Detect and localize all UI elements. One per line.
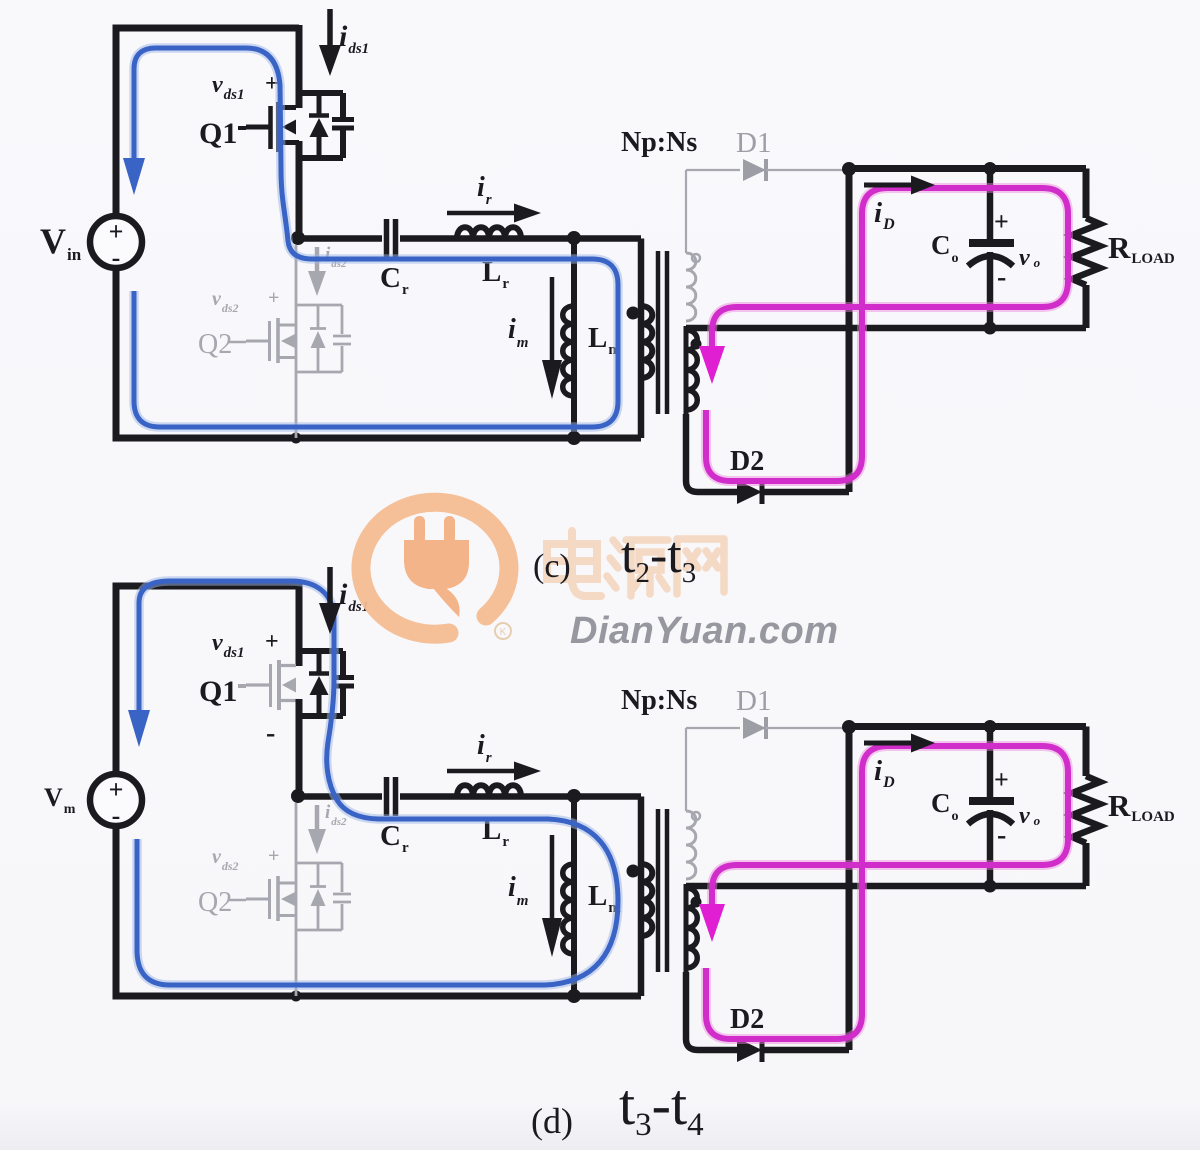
capacitor Cr [circuit (d)] xyxy=(387,777,396,816)
svg-text:+: + xyxy=(109,217,124,246)
svg-text:D1: D1 xyxy=(736,127,771,159)
node A (half-bridge midpoint) [circuit (d)] xyxy=(291,789,305,803)
svg-text:Np:Ns: Np:Ns xyxy=(621,685,697,716)
wire Q2 branch (gray) [circuit (c)] xyxy=(295,245,298,438)
bracket Q1 parallel branch frame [circuit (d)] xyxy=(296,651,343,716)
watermark logo plug xyxy=(404,516,469,617)
svg-text:Q1: Q1 xyxy=(199,675,237,708)
wire D2 to output riser [circuit (d)] xyxy=(762,1047,849,1054)
svg-text:Np:Ns: Np:Ns xyxy=(621,127,697,158)
capacitor Co [circuit (c)] xyxy=(968,169,1014,329)
wire transformer primary branch [circuit (c)] xyxy=(638,239,645,439)
svg-text:vds2: vds2 xyxy=(212,288,239,315)
node Lm bottom [circuit (d)] xyxy=(567,989,581,1003)
transistor Q1 MOSFET symbol [circuit (c)] xyxy=(246,102,299,152)
wire blue resonant-current loop (t2-t3) [circuit (c)] xyxy=(134,48,618,427)
capacitor Q1 output capacitance [circuit (d)] xyxy=(332,678,354,687)
capacitor Q2 output capacitance (gray) [circuit (c)] xyxy=(333,336,351,344)
watermark logo swirl (orange e) xyxy=(361,502,509,634)
transistor Q2 MOSFET symbol (gray) [circuit (d)] xyxy=(246,876,296,921)
node Lm top [circuit (d)] xyxy=(567,789,581,803)
bracket Q1 parallel branch frame [circuit (c)] xyxy=(296,93,343,158)
watermark chinese character dian xyxy=(547,531,601,596)
arrow i_m [circuit (c)] xyxy=(542,277,562,399)
svg-text:Q2: Q2 xyxy=(198,329,232,360)
inductor Lm [circuit (d)] xyxy=(563,796,574,996)
resistor RLOAD [circuit (d)] xyxy=(1072,727,1100,887)
svg-text:+: + xyxy=(268,287,279,309)
source Vin [circuit (d)] xyxy=(90,774,142,830)
svg-text:+: + xyxy=(994,207,1009,236)
inductor Lr [circuit (c)] xyxy=(457,227,521,238)
node Co top [circuit (d)] xyxy=(984,720,997,733)
wire secondary lower to D2 row [circuit (c)] xyxy=(686,414,737,492)
svg-text:(d): (d) xyxy=(531,1101,573,1141)
svg-text:(c): (c) xyxy=(533,548,571,585)
svg-text:D1: D1 xyxy=(736,685,771,717)
svg-text:im: im xyxy=(508,314,528,351)
node Co bottom [circuit (c)] xyxy=(984,322,997,335)
diode Q2 body diode (gray) [circuit (d)] xyxy=(310,863,326,930)
svg-text:RLOAD: RLOAD xyxy=(1108,230,1175,267)
arrow i_D [circuit (d)] xyxy=(864,734,935,753)
node A (half-bridge midpoint) [circuit (c)] xyxy=(291,231,305,245)
node output top-left [circuit (c)] xyxy=(842,162,856,176)
svg-text:iD: iD xyxy=(874,197,895,233)
svg-text:Vm: Vm xyxy=(44,783,76,817)
node output top-left [circuit (d)] xyxy=(842,720,856,734)
svg-text:Co: Co xyxy=(931,788,959,824)
svg-text:-: - xyxy=(112,801,121,830)
watermark chinese character wang xyxy=(677,539,724,594)
diode Q1 body diode [circuit (c)] xyxy=(309,93,329,158)
wire node row to Cr / Lr / Lm [circuit (c)] xyxy=(298,235,641,242)
inductor Lr [circuit (d)] xyxy=(457,785,521,796)
arrow i_r [circuit (d)] xyxy=(447,762,541,781)
wire secondary lower to D2 row [circuit (d)] xyxy=(686,972,737,1050)
node Co bottom [circuit (d)] xyxy=(984,880,997,893)
node Q2 bottom [circuit (d)] xyxy=(291,991,302,1002)
svg-text:vo: vo xyxy=(1019,245,1041,271)
node primary polarity dot [circuit (d)] xyxy=(627,865,640,878)
core transformer [circuit (d)] xyxy=(658,809,667,972)
transistor Q1 MOSFET symbol [circuit (d)] xyxy=(246,660,299,710)
wire D2 to output riser [circuit (c)] xyxy=(762,489,849,496)
arrow i_ds2 (gray) [circuit (d)] xyxy=(308,805,326,854)
winding transformer secondary upper (inactive, gray) [circuit (d)] xyxy=(686,728,696,879)
svg-text:-: - xyxy=(997,820,1006,851)
svg-text:D2: D2 xyxy=(730,446,764,477)
wire output riser (D2 cathode to output +) [circuit (c)] xyxy=(846,169,853,492)
wire output top rail [circuit (c)] xyxy=(849,165,1086,172)
wire Q1 source lead down to node A [circuit (d)] xyxy=(296,699,303,796)
winding transformer primary [circuit (d)] xyxy=(641,864,652,936)
svg-text:ir: ir xyxy=(477,730,492,766)
wire node row to Cr / Lr / Lm [circuit (d)] xyxy=(298,793,641,800)
winding transformer secondary lower [circuit (d)] xyxy=(686,884,697,972)
capacitor Q1 output capacitance [circuit (c)] xyxy=(332,120,354,129)
svg-text:iD: iD xyxy=(874,755,895,791)
node primary polarity dot [circuit (c)] xyxy=(627,307,640,320)
svg-text:-: - xyxy=(112,243,121,272)
wire output return rail (center tap) [circuit (c)] xyxy=(686,325,1086,332)
svg-text:t3-t4: t3-t4 xyxy=(619,1072,704,1143)
node Lm bottom [circuit (c)] xyxy=(567,431,581,445)
svg-text:vds1: vds1 xyxy=(212,72,245,103)
svg-text:vds1: vds1 xyxy=(212,630,245,661)
winding transformer secondary upper (inactive, gray) [circuit (c)] xyxy=(686,170,696,321)
svg-text:Q2: Q2 xyxy=(198,887,232,918)
node secondary lower polarity dot [circuit (c)] xyxy=(691,339,702,350)
wire input-loop: top rail, left rail, bottom rail [circuit (d)] xyxy=(116,586,641,996)
svg-text:+: + xyxy=(268,845,279,867)
svg-text:Q1: Q1 xyxy=(199,117,237,150)
svg-text:Cr: Cr xyxy=(380,262,409,298)
svg-text:-: - xyxy=(997,262,1006,293)
arrow magenta loop head (down, into secondary) [circuit (c)] xyxy=(699,346,725,384)
svg-text:RLOAD: RLOAD xyxy=(1108,788,1175,825)
arrow i_r [circuit (c)] xyxy=(447,204,541,223)
diode Q1 body diode [circuit (d)] xyxy=(309,651,329,716)
node Q2 bottom [circuit (c)] xyxy=(291,433,302,444)
arrow i_D [circuit (c)] xyxy=(864,176,935,195)
capacitor Co [circuit (d)] xyxy=(968,727,1014,887)
wire output return rail (center tap) [circuit (d)] xyxy=(686,883,1086,890)
wire blue resonant-current loop (t3-t4) [circuit (d)] xyxy=(137,581,618,985)
wire output riser (D2 cathode to output +) [circuit (d)] xyxy=(846,727,853,1050)
winding transformer secondary lower [circuit (c)] xyxy=(686,326,697,414)
node secondary upper polarity dot (gray) [circuit (d)] xyxy=(692,812,700,820)
node secondary upper polarity dot (gray) [circuit (c)] xyxy=(692,254,700,262)
source Vin [circuit (c)] xyxy=(90,216,142,272)
svg-text:+: + xyxy=(109,775,124,804)
arrow i_m [circuit (d)] xyxy=(542,835,562,957)
capacitor Cr [circuit (c)] xyxy=(387,219,396,258)
diode Q2 body diode (gray) [circuit (c)] xyxy=(310,305,326,372)
wire magenta secondary-current loop [circuit (c)] xyxy=(706,188,1068,481)
svg-text:+: + xyxy=(265,629,279,655)
svg-text:DianYuan.com: DianYuan.com xyxy=(570,610,839,652)
diode D2 [circuit (d)] xyxy=(737,1038,762,1062)
wire input-loop: top rail, left rail, bottom rail [circuit (c)] xyxy=(116,28,641,438)
arrow blue loop head (down, left rail) [circuit (d)] xyxy=(128,710,150,747)
svg-text:K: K xyxy=(500,627,507,638)
wire Q1 source lead down to node A [circuit (c)] xyxy=(296,141,303,238)
svg-text:ir: ir xyxy=(477,172,492,208)
svg-text:+: + xyxy=(994,765,1009,794)
svg-text:vds2: vds2 xyxy=(212,846,239,873)
arrow i_ds1 [circuit (c)] xyxy=(319,9,341,76)
winding transformer primary [circuit (c)] xyxy=(641,306,652,378)
bracket Q2 parallel branch frame (gray) [circuit (c)] xyxy=(296,305,342,372)
svg-text:-: - xyxy=(266,718,275,749)
svg-text:Co: Co xyxy=(931,230,959,266)
core transformer [circuit (c)] xyxy=(658,251,667,414)
svg-text:ids1: ids1 xyxy=(339,20,369,57)
wire Q1 drain lead [circuit (d)] xyxy=(296,583,303,666)
capacitor Q2 output capacitance (gray) [circuit (d)] xyxy=(333,894,351,902)
svg-text:vo: vo xyxy=(1019,803,1041,829)
node Co top [circuit (c)] xyxy=(984,162,997,175)
svg-text:Vin: Vin xyxy=(40,221,82,264)
svg-text:Cr: Cr xyxy=(380,820,409,856)
node Lm top [circuit (c)] xyxy=(567,231,581,245)
svg-text:D2: D2 xyxy=(730,1004,764,1035)
arrow blue loop head (down, left rail) [circuit (c)] xyxy=(123,158,145,195)
arrow i_ds1 [circuit (d)] xyxy=(319,567,341,634)
watermark registered mark xyxy=(495,623,511,639)
svg-text:im: im xyxy=(508,872,528,909)
diode D1 (off, gray) with wire [circuit (d)] xyxy=(686,717,847,739)
transistor Q2 MOSFET symbol (gray) [circuit (c)] xyxy=(246,318,296,363)
wire magenta secondary-current loop [circuit (d)] xyxy=(706,746,1068,1039)
arrow magenta loop head (down, into secondary) [circuit (d)] xyxy=(699,904,725,942)
bracket Q2 parallel branch frame (gray) [circuit (d)] xyxy=(296,863,342,930)
wire transformer primary branch [circuit (d)] xyxy=(638,797,645,997)
resistor RLOAD [circuit (c)] xyxy=(1072,169,1100,329)
wire Q1 drain lead [circuit (c)] xyxy=(296,25,303,108)
wire output top rail [circuit (d)] xyxy=(849,723,1086,730)
diode D1 (off, gray) with wire [circuit (c)] xyxy=(686,159,847,181)
wire Q2 branch (gray) [circuit (d)] xyxy=(295,803,298,996)
diode D2 [circuit (c)] xyxy=(737,480,762,504)
watermark chinese character yuan xyxy=(607,540,668,596)
arrow i_ds2 (gray) [circuit (c)] xyxy=(308,247,326,296)
node secondary lower polarity dot [circuit (d)] xyxy=(691,897,702,908)
inductor Lm [circuit (c)] xyxy=(563,238,574,438)
